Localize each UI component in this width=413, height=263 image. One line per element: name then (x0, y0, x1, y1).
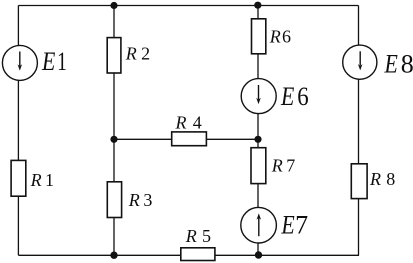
svg-text:E: E (41, 48, 56, 76)
wire top bus (18, 5, 358, 7)
svg-text:7: 7 (295, 210, 308, 239)
svg-text:E: E (384, 51, 399, 79)
resistor R7 (251, 148, 266, 184)
svg-text:E: E (280, 84, 295, 112)
svg-text:R4: R4 (175, 112, 202, 132)
svg-text:E: E (280, 212, 295, 240)
svg-text:R6: R6 (269, 26, 291, 46)
svg-text:8: 8 (401, 49, 413, 78)
wire bottom bus (18, 254, 359, 256)
resistor R4 (172, 132, 207, 146)
junction node bottom-left (R3 / bottom bus) (110, 252, 117, 259)
svg-text:R5: R5 (185, 226, 211, 246)
source E7 (241, 207, 277, 243)
junction node bottom-right (E7 / bottom bus) (255, 251, 262, 258)
junction node mid-left (R2/R3/R4) (110, 136, 117, 143)
resistor R1 (11, 160, 26, 196)
resistor R5 (181, 248, 215, 261)
wire right branch (E8,R8) (358, 6, 360, 256)
svg-text:R8: R8 (369, 169, 395, 189)
resistor R2 (107, 38, 121, 73)
resistor R6 (252, 19, 266, 54)
resistor R3 (107, 182, 121, 218)
svg-text:6: 6 (297, 83, 308, 112)
svg-text:1: 1 (57, 47, 67, 75)
resistor R8 (351, 164, 367, 199)
junction node top-left (R2 / top bus) (110, 2, 117, 9)
svg-text:R7: R7 (271, 156, 296, 176)
wire branch R6/E6/R7/E7 (257, 6, 259, 256)
svg-text:R3: R3 (128, 190, 153, 210)
junction node top-right (R6 / top bus) (254, 2, 261, 9)
wire left branch (E1,R1) (17, 6, 19, 256)
svg-text:R1: R1 (30, 170, 54, 190)
source E6 (241, 79, 276, 114)
junction node mid-right (E6/R7/R4) (254, 136, 261, 143)
svg-text:R2: R2 (125, 44, 150, 64)
wire branch R2/R3 (113, 6, 115, 256)
source E8 (343, 45, 377, 79)
source E1 (2, 45, 37, 80)
wire middle link (R4) (114, 138, 258, 140)
